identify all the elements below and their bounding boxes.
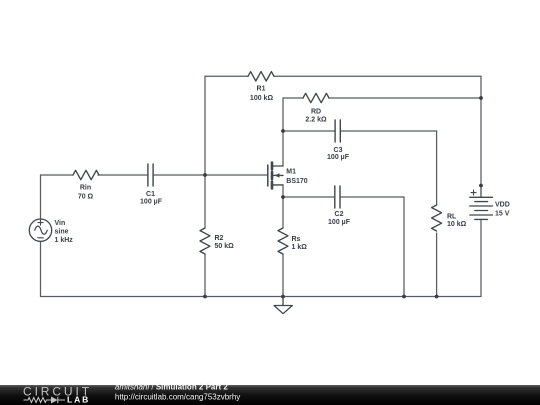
transistor M1 body arrow — [275, 173, 280, 177]
wire RL vertical: RL bottom to bottom row — [436, 233, 438, 297]
svg-text:Rs: Rs — [292, 236, 301, 243]
wire right rail: battery - terminal down to bottom row — [480, 219, 482, 296]
transistor M1 channel bars — [271, 163, 274, 189]
resistor Rin — [73, 170, 99, 179]
capacitor C1 — [148, 164, 153, 186]
svg-text:R1: R1 — [257, 86, 266, 93]
svg-text:15 V: 15 V — [495, 210, 510, 217]
svg-text:R2: R2 — [215, 235, 224, 242]
wire left rail top (Vin to signal row) — [40, 175, 42, 219]
node junction Rs/ground/bottom row (283,296.5) — [281, 295, 285, 299]
svg-text:100 µF: 100 µF — [140, 199, 163, 206]
wire drain vertical x=283 (RD row to M1 drain) — [282, 98, 284, 166]
source Vin circle — [29, 219, 51, 241]
wire vertical x=283: Rs bottom to bottom row — [282, 254, 284, 297]
wire RD row: drain vertical to RD — [283, 97, 303, 99]
svg-text:10 kΩ: 10 kΩ — [447, 221, 467, 228]
svg-text:sine: sine — [55, 229, 69, 236]
wire RD row: RD to right rail — [329, 97, 481, 99]
svg-text:50 kΩ: 50 kΩ — [215, 243, 235, 250]
resistor Rs — [278, 228, 288, 254]
svg-text:amitshahi / Simulation 2 Part: amitshahi / Simulation 2 Part 2 — [115, 383, 228, 392]
wire RL vertical: C3 row to RL top — [436, 131, 438, 205]
wire left rail bottom (Vin to ground row) — [40, 242, 42, 297]
resistor R2 — [200, 228, 210, 254]
wire C2 row: C2 to x=404 vertical — [340, 196, 404, 198]
svg-text:70 Ω: 70 Ω — [78, 194, 94, 201]
svg-text:LAB: LAB — [67, 395, 90, 405]
wire signal row: left rail to Rin — [41, 174, 74, 176]
svg-text:1 kΩ: 1 kΩ — [292, 244, 308, 251]
ground symbol — [274, 297, 292, 314]
svg-text:Rin: Rin — [80, 185, 91, 192]
transistor M1 body lead — [273, 174, 283, 176]
svg-text:100 µF: 100 µF — [328, 219, 351, 226]
battery VDD plates — [470, 197, 493, 219]
wire right rail: top row down to battery + terminal — [480, 76, 482, 185]
battery VDD plus sign — [471, 190, 476, 195]
svg-text:Vin: Vin — [55, 220, 66, 227]
wire C3 row: C3 to RL vertical — [340, 130, 436, 132]
wire bottom row — [41, 296, 482, 298]
svg-text:RD: RD — [311, 109, 321, 116]
source Vin plus sign — [38, 220, 43, 225]
wire top row: x=205 to R1 — [205, 75, 248, 77]
svg-text:2.2 kΩ: 2.2 kΩ — [305, 117, 327, 124]
svg-text:RL: RL — [447, 214, 457, 221]
wire vertical x=404: C2 row to bottom row — [403, 197, 405, 297]
node junction at C1/R2/gate (205,175) — [203, 173, 207, 177]
transistor M1 gate bar — [267, 165, 269, 186]
svg-text:VDD: VDD — [495, 202, 510, 209]
source Vin minus sign — [38, 237, 44, 239]
svg-text:C1: C1 — [146, 191, 155, 198]
transistor M1 drain lead — [273, 165, 283, 167]
wire signal row: Rin to C1 — [98, 174, 148, 176]
svg-text:C3: C3 — [334, 147, 343, 154]
svg-text:M1: M1 — [286, 169, 296, 176]
wire C3 row: drain vertical to C3 — [283, 130, 335, 132]
capacitor C2 — [335, 186, 340, 208]
svg-text:100 µF: 100 µF — [327, 154, 350, 161]
svg-text:http://circuitlab.com/cang753z: http://circuitlab.com/cang753zvbrhy — [115, 392, 240, 401]
svg-text:100 kΩ: 100 kΩ — [250, 95, 274, 102]
wire source vertical x=283: M1 source to Rs top — [282, 185, 284, 228]
footer bar — [0, 385, 540, 405]
resistor RD — [303, 93, 329, 102]
node junction R2/bottom row (205,296.5) — [203, 295, 207, 299]
battery VDD + terminal stub — [480, 186, 482, 198]
transistor M1 source lead — [273, 184, 283, 186]
svg-text:1 kHz: 1 kHz — [55, 237, 74, 244]
node junction battery + terminal (481,185.5) — [479, 184, 483, 188]
wire vertical x=205: R1 row down to R2 top — [204, 76, 206, 228]
svg-text:BS170: BS170 — [286, 178, 308, 185]
node junction RD/right rail (481,98) — [479, 96, 483, 100]
svg-text:C2: C2 — [335, 211, 344, 218]
wire signal row: C1 to gate of M1 (through node at x=205) — [153, 174, 267, 176]
node junction RL/bottom row (436.6,296.5) — [435, 295, 439, 299]
node junction source/C2 (283,197) — [281, 195, 285, 199]
capacitor C3 — [335, 120, 340, 142]
resistor RL — [432, 205, 442, 231]
wire vertical x=205: R2 bottom to bottom row — [204, 254, 206, 297]
logo circuit glyph (wire-resistor-diode) — [24, 397, 66, 403]
wire top row: R1 to right rail — [274, 75, 481, 77]
source Vin sine glyph — [35, 226, 47, 234]
wire C2 row: M1 source to C2 — [283, 196, 335, 198]
resistor R1 — [248, 72, 274, 81]
node junction drain/C3 (283,131) — [281, 129, 285, 133]
node junction C2 branch/bottom row (404,296.5) — [402, 295, 406, 299]
